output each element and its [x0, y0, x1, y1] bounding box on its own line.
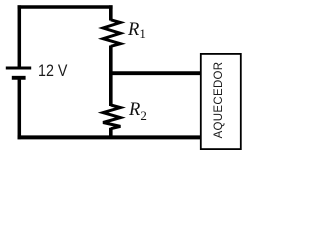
- resistor R2: [103, 105, 120, 129]
- label 12 V: [38, 61, 67, 81]
- wire top: [18, 5, 113, 9]
- label R1: [128, 20, 146, 41]
- heater box AQUECEDOR: [201, 54, 241, 149]
- wire middle to heater: [111, 71, 200, 75]
- wire branch bottom stub: [109, 128, 113, 139]
- battery 12 V negative plate: [12, 76, 26, 80]
- label AQUECEDOR: [213, 62, 225, 139]
- label R2: [129, 100, 147, 121]
- resistor R1: [103, 20, 120, 47]
- wire branch top stub: [109, 5, 113, 20]
- wire left lower: [18, 79, 22, 139]
- wire bottom: [18, 135, 201, 139]
- battery 12 V positive plate: [6, 67, 31, 70]
- wire left upper: [18, 5, 22, 67]
- wire branch middle: [109, 46, 113, 107]
